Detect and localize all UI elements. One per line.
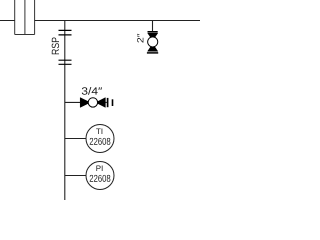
wire TI instrument lead <box>65 138 86 140</box>
instrument bubble TI 22608 <box>86 125 114 153</box>
valve V1 3/4in globe valve body <box>80 98 90 108</box>
blind flange bar at V1 outlet <box>107 98 109 107</box>
label 2in <box>137 34 143 43</box>
wire vertical branch line <box>64 21 66 201</box>
valve V2 body bottom triangle <box>148 44 158 52</box>
instrument bubble PI 22608 <box>86 162 114 190</box>
cap tick after V1 <box>112 99 114 106</box>
label 3/4in <box>82 87 102 95</box>
label RSP <box>52 37 59 54</box>
valve V1 ball circle <box>88 98 97 107</box>
wire 3/4in valve stub <box>65 101 107 103</box>
wire main header pipe <box>0 20 200 22</box>
equipment nozzle E1 <box>15 0 35 35</box>
wire 2in valve stub <box>152 21 154 32</box>
flange pair F2 (removable spool lower) <box>59 60 72 64</box>
flange pair F1 (removable spool upper) <box>59 30 72 35</box>
valve V2 ball circle <box>148 37 158 47</box>
valve V2 2in valve top flange bar <box>148 31 158 33</box>
valve V2 bottom flange bar <box>147 52 158 54</box>
valve V2 body top triangle <box>148 33 158 41</box>
wire PI instrument lead <box>65 175 86 177</box>
